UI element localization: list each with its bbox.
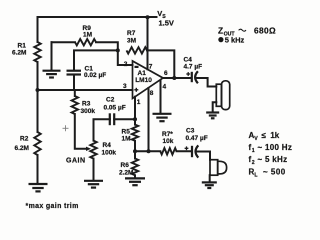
speaker SPK1 cone: [222, 81, 230, 110]
capacitor C2 label: [104, 97, 126, 112]
capacitor C3: [192, 145, 198, 157]
svg-text:~ 5 kHz: ~ 5 kHz: [258, 155, 288, 164]
svg-text:0.02 µF: 0.02 µF: [84, 72, 106, 79]
ground at R9 left: [51, 42, 53, 70]
wire pin 3 input: [38, 89, 133, 91]
capacitor C4 label: [184, 57, 203, 71]
svg-text:10k: 10k: [163, 138, 174, 145]
speaker SPK2 driver: [210, 160, 218, 176]
resistor R6: [134, 151, 136, 158]
wire R3 to wiper: [75, 114, 87, 149]
potentiometer R4: [90, 141, 96, 159]
wire R6 to ground: [134, 175, 136, 178]
pin 4 label: [163, 84, 167, 91]
pin 3 label: [123, 83, 127, 90]
scan artifact cross: [63, 125, 69, 131]
svg-text:V: V: [254, 136, 258, 142]
plus mark C4: [186, 72, 190, 76]
svg-text:*max gain trim: *max gain trim: [26, 203, 79, 210]
capacitor C1 label: [84, 66, 106, 79]
resistor R3 label: [81, 101, 96, 116]
pin 6 label: [164, 70, 168, 77]
wire R7star to C3: [177, 150, 192, 152]
C3 plus mark: [185, 146, 189, 150]
wire R9 to feedback node: [96, 42, 118, 50]
resistor R2: [34, 132, 40, 155]
resistor R9 label: [83, 25, 93, 39]
wire R7 to output: [147, 50, 174, 78]
resistor R9: [75, 39, 96, 45]
wire C4 to speaker SPK1: [196, 78, 217, 87]
svg-text:LM10: LM10: [135, 77, 152, 84]
note f2: [249, 155, 288, 166]
wire VS supply to pin 7: [147, 17, 149, 69]
svg-text:GAIN: GAIN: [66, 158, 86, 165]
capacitor C4: [192, 71, 198, 83]
svg-text:R5: R5: [122, 129, 131, 136]
svg-text:300k: 300k: [81, 108, 96, 115]
wire speaker SPK1 to ground: [213, 102, 217, 112]
svg-text:4.7 µF: 4.7 µF: [184, 64, 203, 71]
resistor R1: [34, 42, 40, 62]
svg-text:4: 4: [163, 84, 167, 91]
resistor R7: [127, 47, 148, 53]
wire R5 to node X: [134, 141, 136, 152]
pin 8 label: [150, 90, 154, 97]
wire node X to R7star: [135, 150, 160, 152]
wire pin 1: [134, 97, 136, 120]
svg-text:100k: 100k: [102, 150, 117, 157]
svg-text:6: 6: [164, 70, 168, 77]
svg-text:R6: R6: [121, 162, 130, 169]
wire left rail middle: [37, 62, 39, 132]
wire C1 bottom stub: [73, 75, 75, 91]
svg-text:~ 100 Hz: ~ 100 Hz: [258, 143, 293, 152]
note AV: [249, 131, 280, 142]
svg-text:R4: R4: [103, 142, 112, 149]
pin 2 label: [124, 61, 128, 68]
resistor R7star label: [162, 131, 174, 145]
note f1: [249, 143, 293, 154]
resistor R6 label: [119, 162, 133, 177]
svg-text:0.47 µF: 0.47 µF: [186, 135, 208, 142]
resistor R5 label: [122, 129, 131, 143]
svg-text:C4: C4: [184, 57, 193, 64]
op-amp A1 LM10: [133, 61, 164, 98]
svg-text:R7: R7: [127, 30, 136, 37]
wire C2 left to R4: [94, 119, 110, 140]
speaker SPK1 driver: [216, 84, 221, 106]
svg-text:Z: Z: [218, 26, 223, 36]
svg-text:3: 3: [123, 83, 127, 90]
svg-text:R2: R2: [20, 136, 29, 143]
capacitor C1: [67, 71, 82, 75]
svg-text:1: 1: [137, 99, 141, 106]
svg-text:680Ω: 680Ω: [254, 26, 276, 36]
wire pin 8: [148, 88, 150, 151]
svg-text:1M: 1M: [122, 136, 131, 143]
footnote max gain trim: [26, 203, 79, 210]
resistor R7 label: [127, 30, 136, 44]
resistor R2 value label: [15, 136, 29, 153]
ground under SPK2: [202, 182, 217, 188]
wire pin 6 output: [163, 77, 192, 79]
svg-text:R3: R3: [82, 101, 91, 108]
wire speaker SPK2 to ground: [209, 175, 211, 182]
svg-text:6.2M: 6.2M: [15, 145, 29, 152]
svg-text:1: 1: [252, 148, 255, 154]
pin 7 label: [149, 64, 153, 71]
ground under R2: [29, 184, 48, 191]
svg-text:≤ 1k: ≤ 1k: [262, 131, 280, 140]
node VS label: [157, 9, 174, 27]
svg-text:2.2M: 2.2M: [119, 170, 133, 177]
svg-text:3M: 3M: [127, 37, 136, 44]
capacitor C2: [110, 113, 114, 125]
wire C2 right: [114, 118, 135, 120]
pin 1 label: [137, 99, 141, 106]
wire pin 4 to ground: [160, 81, 162, 114]
svg-text:C3: C3: [186, 128, 195, 135]
node VS junction dot: [146, 15, 150, 19]
svg-text:1.5V: 1.5V: [159, 18, 174, 27]
wire feedback node to C1: [74, 50, 118, 70]
resistor R7star: [160, 148, 176, 154]
svg-text:6.2M: 6.2M: [12, 49, 26, 56]
resistor R4 label: [102, 142, 117, 157]
svg-text:0.05 µF: 0.05 µF: [104, 105, 126, 112]
node C2 junction dot: [133, 117, 137, 121]
ground under R6: [125, 178, 145, 185]
wire R9 row: [52, 41, 76, 43]
svg-text:2: 2: [252, 160, 255, 166]
op-amp plus sign: [134, 88, 138, 92]
node output junction dot: [172, 76, 176, 80]
wire left rail lower: [37, 155, 39, 184]
svg-text:1M: 1M: [83, 32, 92, 39]
capacitor C3 label: [186, 128, 208, 143]
svg-text:2: 2: [124, 61, 128, 68]
svg-text:C2: C2: [106, 97, 115, 104]
svg-text:5 kHz: 5 kHz: [225, 36, 245, 45]
ground under SPK1: [206, 113, 219, 119]
op-amp A1 LM10 label: [135, 70, 152, 84]
ground at pin 4: [153, 114, 172, 121]
ground under R4: [84, 181, 103, 188]
resistor R3: [74, 90, 76, 96]
wire pin 2: [118, 50, 133, 65]
wire C3 to speaker: [196, 152, 210, 160]
svg-text:~ 500: ~ 500: [263, 168, 286, 177]
node feedback junction dot: [116, 48, 120, 52]
wire top supply rail: [38, 16, 157, 18]
op-amp minus sign: [135, 66, 139, 68]
node X junction dot: [133, 149, 137, 153]
speaker SPK2 cone: [218, 161, 227, 174]
node input junction dot: [36, 88, 40, 92]
wire left rail upper: [37, 17, 39, 42]
note RL: [249, 168, 286, 179]
GAIN label: [66, 158, 86, 165]
R4 wiper arrow: [86, 147, 91, 151]
svg-text:8: 8: [150, 90, 154, 97]
node pin8 junction dot: [147, 149, 151, 153]
resistor R1 value label: [12, 43, 26, 57]
resistor R5: [134, 119, 136, 124]
ZOUT note: [218, 26, 276, 45]
svg-text:7: 7: [149, 64, 153, 71]
wire R4 to ground: [93, 159, 95, 181]
